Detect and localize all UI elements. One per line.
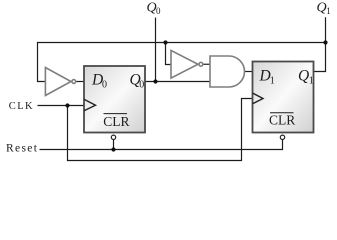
svg-text:1: 1 [270, 76, 275, 87]
svg-text:CLR: CLR [269, 113, 295, 128]
svg-text:CLK: CLK [9, 101, 34, 112]
svg-text:CLR: CLR [103, 114, 129, 129]
svg-text:1: 1 [326, 6, 331, 16]
svg-text:0: 0 [102, 80, 107, 91]
svg-text:1: 1 [309, 76, 314, 87]
svg-text:0: 0 [139, 80, 144, 91]
svg-text:Q: Q [298, 68, 309, 85]
svg-text:Reset: Reset [6, 143, 38, 155]
svg-text:Q: Q [317, 1, 327, 16]
svg-text:0: 0 [156, 6, 161, 16]
